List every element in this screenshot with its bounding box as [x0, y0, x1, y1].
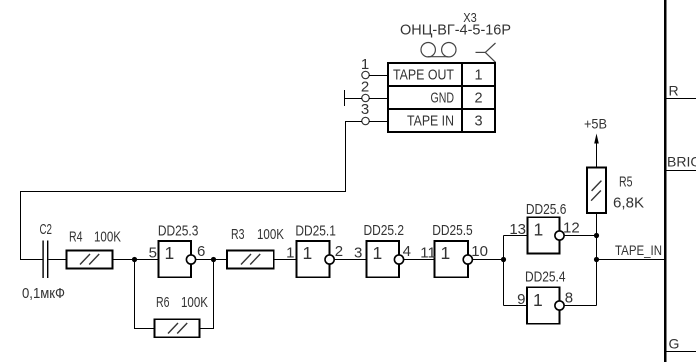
- op-amp DD25.5 inverter: [435, 241, 468, 277]
- wire DD25.5 to split node: [472, 259, 503, 261]
- svg-text:+5В: +5В: [584, 116, 607, 132]
- svg-text:6,8K: 6,8K: [613, 195, 644, 212]
- net stub G: [665, 351, 696, 353]
- op-amp DD25.2 inverter: [367, 241, 400, 277]
- node split junction: [501, 257, 506, 262]
- wire R3 to DD25.1: [274, 259, 297, 261]
- svg-text:1: 1: [286, 245, 294, 262]
- svg-text:13: 13: [509, 221, 526, 238]
- resistor R5: [587, 167, 606, 213]
- chassis bar at pin 2: [344, 90, 346, 106]
- wire R6 right leg: [200, 260, 214, 329]
- svg-text:1: 1: [303, 243, 313, 263]
- svg-text:0,1мкФ: 0,1мкФ: [22, 285, 65, 302]
- op-amp DD25.6 inverter: [528, 217, 560, 254]
- net stub BRIG: [665, 170, 696, 172]
- wire R6 left leg: [135, 260, 155, 329]
- arrowhead +5B: [594, 134, 599, 144]
- svg-text:DD25.6: DD25.6: [526, 201, 567, 218]
- pin 1 circle: [362, 71, 369, 78]
- svg-text:1: 1: [165, 243, 175, 263]
- wire output merge vertical: [596, 213, 598, 305]
- svg-text:3: 3: [474, 114, 482, 130]
- svg-text:TAPE OUT: TAPE OUT: [393, 68, 454, 84]
- svg-text:DD25.5: DD25.5: [432, 222, 473, 239]
- wire C2 to R4: [48, 259, 66, 261]
- wire pin1 to table: [369, 75, 388, 77]
- svg-text:1: 1: [534, 220, 544, 240]
- svg-text:DD25.2: DD25.2: [364, 222, 405, 239]
- svg-text:3: 3: [361, 101, 369, 118]
- op-amp DD25.3 inverter: [159, 241, 192, 277]
- wire TAPE_IN to bus: [597, 259, 666, 261]
- svg-text:1: 1: [533, 290, 543, 310]
- svg-text:10: 10: [471, 243, 488, 260]
- wire split vertical: [503, 236, 505, 306]
- svg-text:ОНЦ-ВГ-4-5-16Р: ОНЦ-ВГ-4-5-16Р: [400, 22, 511, 39]
- svg-text:DD25.4: DD25.4: [525, 269, 566, 286]
- resistor R4: [66, 250, 112, 268]
- svg-text:2: 2: [335, 243, 343, 260]
- svg-text:2: 2: [474, 91, 482, 107]
- op-amp DD25.4 inverter: [527, 287, 560, 324]
- wire R5 to +5B arrow: [596, 141, 598, 167]
- svg-text:1: 1: [474, 68, 482, 84]
- svg-text:100K: 100K: [181, 294, 208, 311]
- svg-text:12: 12: [563, 220, 580, 237]
- tape reels icon: [421, 43, 456, 57]
- wire DD25.4 out: [564, 305, 596, 307]
- resistor R6: [154, 319, 199, 337]
- wire DD25.1 to DD25.2: [334, 259, 366, 261]
- svg-text:1: 1: [373, 243, 383, 263]
- plug fork symbol: [476, 43, 496, 62]
- net stub R: [665, 98, 696, 100]
- capacitor C2: [43, 241, 48, 279]
- svg-text:9: 9: [517, 291, 525, 308]
- resistor R3: [227, 250, 274, 268]
- wire pin3 to C2: [21, 122, 362, 260]
- svg-text:R6: R6: [156, 294, 170, 311]
- wire pin2 to table: [369, 98, 388, 100]
- pin 2 circle: [362, 94, 369, 101]
- svg-text:R: R: [669, 83, 679, 99]
- wire to DD25.4 input: [504, 305, 528, 307]
- svg-text:R5: R5: [619, 174, 633, 191]
- svg-text:DD25.1: DD25.1: [295, 223, 336, 240]
- svg-text:2: 2: [361, 79, 369, 96]
- wire DD25.6 out: [564, 235, 596, 237]
- wire DD25.3 out: [196, 259, 227, 261]
- node TAPE_IN: [594, 257, 599, 262]
- op-amp DD25.1 inverter: [296, 241, 329, 277]
- svg-text:R4: R4: [69, 229, 83, 246]
- svg-text:G: G: [669, 336, 680, 352]
- svg-text:1: 1: [361, 56, 369, 73]
- pin 3 circle: [362, 117, 369, 124]
- bus vertical line: [664, 0, 667, 362]
- svg-text:4: 4: [403, 243, 411, 260]
- svg-text:TAPE_IN: TAPE_IN: [615, 243, 662, 258]
- node merge DD25.6: [594, 233, 599, 238]
- svg-text:100K: 100K: [94, 229, 121, 246]
- svg-text:R3: R3: [231, 226, 245, 243]
- svg-text:1: 1: [441, 243, 451, 263]
- svg-text:C2: C2: [40, 221, 53, 238]
- node junction R4/R6: [132, 257, 137, 262]
- connector X3 table: [388, 63, 495, 132]
- svg-text:6: 6: [197, 243, 205, 260]
- svg-text:DD25.3: DD25.3: [158, 223, 199, 240]
- wire chassis to pin2: [344, 98, 362, 100]
- svg-text:100K: 100K: [257, 226, 284, 243]
- svg-text:8: 8: [565, 290, 573, 307]
- svg-text:TAPE IN: TAPE IN: [407, 114, 454, 130]
- svg-text:5: 5: [149, 245, 157, 262]
- svg-text:GND: GND: [431, 91, 455, 107]
- node junction DD25.3/R6: [211, 257, 216, 262]
- svg-text:11: 11: [420, 245, 436, 262]
- wire pin3 to table: [369, 121, 388, 123]
- wire to DD25.6 input: [504, 235, 528, 237]
- wire R4 to DD25.3: [112, 259, 158, 261]
- svg-text:3: 3: [354, 245, 362, 262]
- svg-text:BRIG: BRIG: [667, 154, 696, 170]
- wire DD25.2 to DD25.5: [404, 259, 435, 261]
